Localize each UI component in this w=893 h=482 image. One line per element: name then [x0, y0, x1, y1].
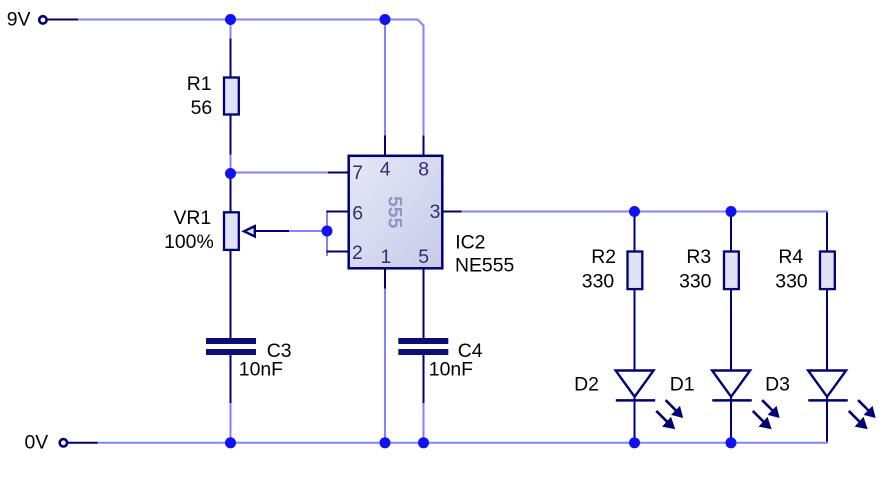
svg-text:R4: R4 [778, 246, 803, 268]
svg-text:7: 7 [352, 162, 363, 184]
svg-text:10nF: 10nF [429, 358, 473, 380]
svg-text:R1: R1 [187, 73, 212, 95]
svg-text:100%: 100% [164, 231, 214, 253]
svg-text:1: 1 [381, 246, 392, 268]
svg-text:4: 4 [380, 158, 391, 180]
svg-text:IC2: IC2 [455, 232, 485, 254]
svg-text:R2: R2 [591, 246, 616, 268]
svg-text:330: 330 [775, 270, 808, 292]
svg-text:5: 5 [418, 246, 429, 268]
svg-text:330: 330 [679, 270, 712, 292]
svg-text:330: 330 [582, 270, 615, 292]
svg-text:10nF: 10nF [239, 358, 283, 380]
svg-text:D2: D2 [574, 373, 599, 395]
svg-text:8: 8 [418, 158, 429, 180]
svg-text:D3: D3 [765, 373, 790, 395]
svg-text:2: 2 [352, 242, 363, 264]
svg-text:VR1: VR1 [174, 207, 212, 229]
svg-text:D1: D1 [670, 373, 695, 395]
svg-text:555: 555 [384, 196, 406, 229]
svg-text:56: 56 [191, 97, 213, 119]
svg-text:9V: 9V [7, 9, 31, 31]
svg-text:R3: R3 [686, 246, 711, 268]
svg-text:3: 3 [430, 201, 441, 223]
svg-text:0V: 0V [25, 432, 49, 454]
svg-text:6: 6 [352, 203, 363, 225]
svg-text:NE555: NE555 [455, 255, 514, 277]
